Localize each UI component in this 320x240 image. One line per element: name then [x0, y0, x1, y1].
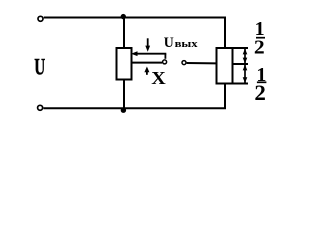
label: 1/2 lower [254, 64, 266, 105]
dimension tick: bottom [234, 83, 249, 85]
terminal: bottom input [38, 105, 43, 110]
wire: output right terminal to divider tap [187, 62, 217, 64]
label: Uvyh output voltage [164, 35, 198, 51]
terminal: output left [163, 60, 167, 64]
arrow: X displacement arrow (up) [144, 67, 149, 75]
wire: pot tap line to output terminal [132, 62, 163, 64]
potentiometer R body [117, 48, 132, 80]
resistor: center-tapped divider body [217, 48, 233, 84]
svg-text:U: U [34, 55, 45, 81]
wire: wiper down to output terminal [164, 54, 166, 59]
dimension arrow: upper half [243, 49, 248, 64]
terminal: top input [38, 16, 43, 21]
dimension arrow: lower half [243, 65, 248, 83]
wire: right branch top lead [224, 18, 226, 49]
svg-text:2: 2 [254, 80, 266, 105]
junction: bottom node [121, 108, 126, 113]
wire: top horizontal bus [44, 17, 226, 19]
svg-text:X: X [151, 68, 166, 88]
wire: potentiometer top lead [123, 18, 125, 49]
wire: right branch bottom lead [224, 84, 226, 109]
svg-text:2: 2 [254, 37, 265, 59]
svg-text:U: U [164, 35, 174, 51]
wire: bottom horizontal bus [44, 107, 227, 109]
svg-text:вых: вых [175, 38, 199, 50]
terminal: output right [182, 61, 186, 65]
label: 1/2 upper [254, 18, 265, 59]
potentiometer wiper arrow [131, 51, 166, 56]
dimension tick: middle [232, 63, 249, 65]
junction: top node [121, 14, 126, 19]
arrow: Uvyh voltage arrow (down) [145, 38, 150, 52]
dimension tick: top [234, 47, 249, 49]
wire: potentiometer bottom lead [123, 80, 125, 110]
